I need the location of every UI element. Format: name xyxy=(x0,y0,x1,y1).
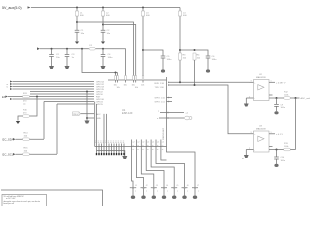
wire drop 2 xyxy=(102,8,104,12)
net label column GPIO names xyxy=(96,82,105,121)
reference U3 xyxy=(256,126,266,131)
wire staircase to jumper col 6 xyxy=(156,152,185,185)
svg-text:x: x xyxy=(187,191,188,193)
pin numbers pad row xyxy=(96,148,125,150)
pin stub GPIO row 1 xyxy=(167,97,173,99)
ground (87,120.5) xyxy=(85,121,90,124)
svg-text:io: io xyxy=(162,145,163,147)
net label LED1 left xyxy=(158,110,189,114)
node junction (77,7.5) xyxy=(76,7,78,9)
ground (144,196.5) xyxy=(141,196,145,199)
wire module riser a xyxy=(103,114,105,144)
pin arrow line 4 xyxy=(10,88,13,90)
note box xyxy=(2,195,47,208)
pin tick rail A xyxy=(168,82,170,84)
net label gnd note xyxy=(242,158,244,160)
wire C9 drop xyxy=(276,98,278,104)
resistor R12 xyxy=(284,92,291,100)
svg-text:io: io xyxy=(142,145,143,147)
svg-text:100k: 100k xyxy=(284,146,288,148)
wire I2C_SDA xyxy=(16,138,45,140)
node junction (103,24) xyxy=(102,24,104,26)
pin arrow UART line 1 xyxy=(10,81,13,83)
wire drop 1 xyxy=(76,8,78,12)
net label out2 xyxy=(271,132,284,136)
wire bottom frame xyxy=(1,190,103,206)
wire LED line 2 xyxy=(159,117,184,119)
op-amp U3 triangle xyxy=(258,136,264,141)
node junction (103,49) xyxy=(102,48,104,50)
wire bundle line 2 xyxy=(13,83,95,85)
wire module rail 2 xyxy=(97,151,125,157)
pin U3 ref xyxy=(269,149,284,151)
svg-text:5V_aux(5.0): 5V_aux(5.0) xyxy=(2,6,22,10)
wire riser SCL to module pin1 xyxy=(96,104,98,144)
ground (276.5,165.4) xyxy=(274,164,278,167)
resistor R7 xyxy=(124,76,127,87)
wire JP3 gnd stub xyxy=(153,194,155,196)
svg-text:x: x xyxy=(135,191,136,193)
wire C9 to gnd xyxy=(276,106,278,111)
capacitor C4a xyxy=(101,30,111,35)
svg-text:10k: 10k xyxy=(124,85,127,87)
wire R13 to feedback riser xyxy=(290,149,295,151)
svg-text:= 0.1 V: = 0.1 V xyxy=(276,134,284,136)
pin U2 ref xyxy=(269,97,284,99)
wire C10 to gnd xyxy=(276,159,278,164)
wire riser SDA to module xyxy=(94,102,96,147)
svg-text:100n: 100n xyxy=(167,59,173,61)
pin stub GPIO row 2 xyxy=(167,101,173,103)
resistor R9 xyxy=(135,76,138,90)
svg-text:2: 2 xyxy=(249,96,250,98)
resistor R8 xyxy=(132,76,135,87)
svg-text:io: io xyxy=(157,145,158,147)
svg-text:io: io xyxy=(137,145,138,147)
wire bundle line 8 xyxy=(13,98,95,100)
node junction (143,7.5) xyxy=(142,7,144,9)
net label EN xyxy=(2,95,6,99)
resistor R3 xyxy=(179,53,187,60)
wire top 5V rail xyxy=(31,7,180,9)
wire LED line 1 xyxy=(160,112,184,114)
wire rail to C6 xyxy=(180,50,208,56)
net label stub 2 xyxy=(155,102,166,104)
reference U1 ESP-12F xyxy=(122,108,133,115)
svg-text:tx: tx xyxy=(7,86,9,89)
wire JP4 gnd stub xyxy=(163,194,165,196)
svg-text:GPIO 1.11: GPIO 1.11 xyxy=(155,102,166,104)
svg-text:100n: 100n xyxy=(212,59,218,61)
wire staircase to jumper col 2 xyxy=(136,152,143,185)
fuse F2 xyxy=(23,93,30,98)
ground (208,70) xyxy=(206,69,210,72)
svg-text:io: io xyxy=(152,145,153,147)
ferrite bead FB3 xyxy=(141,11,150,17)
node junction (67,48.5) xyxy=(66,48,68,50)
svg-text:io: io xyxy=(147,145,148,147)
ground (18,122) xyxy=(16,121,20,124)
wire rail B to opamp2 xyxy=(168,85,254,134)
capacitor C10 xyxy=(274,157,285,162)
net label TXD on rail B xyxy=(155,87,165,89)
wire rail R pullups xyxy=(108,79,167,81)
pin tick (168,112.5) xyxy=(167,112,169,114)
node junction (194.5,85) xyxy=(194,84,196,86)
wire R3 to rail A xyxy=(179,60,181,82)
svg-text:EN: EN xyxy=(2,95,6,99)
pin arrow UART line 2 xyxy=(10,83,13,85)
op-amp U2 triangle xyxy=(258,85,264,90)
solder jumper JP3 xyxy=(151,185,159,195)
svg-text:x: x xyxy=(157,191,158,193)
resistor R14 xyxy=(23,133,30,141)
pin arrow line 3 xyxy=(10,86,13,88)
ground (77,41) xyxy=(75,42,79,45)
node junction (143,50) xyxy=(142,49,144,51)
wire I2C SCL riser xyxy=(57,104,94,154)
net label LED2 left xyxy=(157,118,159,120)
capacitor C3 xyxy=(65,54,75,59)
pin U3 v- to gnd xyxy=(246,150,253,156)
wire R4 to rail B xyxy=(194,60,196,85)
wire rail y24 xyxy=(103,25,136,76)
ground (185,196.5) xyxy=(182,196,186,199)
wire module riser b xyxy=(106,114,108,144)
pin arrow line 8 xyxy=(10,98,13,100)
ground (246.3,155) xyxy=(244,155,249,158)
net label out1 xyxy=(271,81,286,85)
wire C4a to gnd xyxy=(102,32,104,41)
wire staircase to jumper col 1 xyxy=(132,152,134,185)
node junction (51.5,48.5) xyxy=(51,48,53,50)
wire bundle line 3 xyxy=(13,86,95,88)
node junction (194,50) xyxy=(194,49,196,51)
ground (276.5,112.8) xyxy=(274,111,278,114)
wire C10 drop xyxy=(276,150,278,158)
svg-text:GPIO 1.10: GPIO 1.10 xyxy=(155,98,166,100)
pin U3 out xyxy=(269,133,275,135)
node junction (116,72.5) xyxy=(115,72,117,74)
wire gnd drop x87 xyxy=(86,92,88,121)
label column reset xyxy=(23,101,28,115)
pin arrow I2C_SCL xyxy=(13,153,16,155)
node junction (77,22) xyxy=(76,21,78,23)
wire branch x82 down to y72.5 xyxy=(82,49,118,73)
svg-text:a2: a2 xyxy=(132,142,134,144)
wire feedback riser x295.5 xyxy=(295,98,297,150)
svg-text:ADC_mid: ADC_mid xyxy=(301,97,311,100)
note text xyxy=(4,195,40,205)
resistor R15 xyxy=(23,148,30,156)
net label ADC_mid xyxy=(301,97,311,100)
ground (196,196.5) xyxy=(193,196,197,199)
fuse F1 xyxy=(89,45,96,50)
capacitor C2 xyxy=(49,54,60,59)
svg-text:100n: 100n xyxy=(108,57,114,59)
wire C1 to gnd xyxy=(76,32,78,41)
pin arrow 5V input xyxy=(28,6,31,8)
capacitor C5 xyxy=(161,56,172,61)
svg-text:a2: a2 xyxy=(152,142,154,144)
svg-text:I2C_SDA: I2C_SDA xyxy=(2,138,14,142)
svg-text:10k: 10k xyxy=(135,87,138,89)
wire below FB2 xyxy=(102,16,104,30)
svg-text:10k: 10k xyxy=(117,87,120,89)
ground (175,196.5) xyxy=(172,196,176,199)
wire R12 out xyxy=(290,97,299,99)
svg-text:100k: 100k xyxy=(284,94,288,96)
wire C5 to gnd xyxy=(162,58,164,70)
wire bundle line 4 xyxy=(13,88,95,90)
wire JP5 gnd stub xyxy=(173,194,175,196)
net label RX xyxy=(7,84,9,89)
wire reset branch down xyxy=(30,97,38,117)
wire I2C_SCL xyxy=(16,153,58,155)
pin U3 nc stub xyxy=(269,146,273,148)
ground (155,196.5) xyxy=(152,196,156,199)
wire C4 leads xyxy=(102,49,104,66)
wire C6 to gnd xyxy=(207,58,209,70)
pin label + xyxy=(251,81,257,85)
wire PROG line xyxy=(81,113,95,115)
ground (67,66) xyxy=(65,66,70,69)
svg-text:100n: 100n xyxy=(281,160,285,162)
solder jumper JP7 xyxy=(192,185,200,195)
wire route to jumper col 7 xyxy=(161,147,195,185)
svg-text:= 0.597 V: = 0.597 V xyxy=(276,82,286,84)
net label I2C_SCL xyxy=(2,153,14,157)
svg-text:3: 3 xyxy=(251,132,252,134)
ferrite bead FB2 xyxy=(101,11,110,17)
module comb pins 13-24 xyxy=(132,140,164,153)
resistor R6 xyxy=(117,73,120,90)
pin tick stub 2 xyxy=(168,101,170,103)
pin U2 v- to gnd xyxy=(246,98,253,104)
svg-text:nc: nc xyxy=(242,158,244,160)
node junction (180,50) xyxy=(179,49,181,51)
wire below FB1 xyxy=(76,16,78,30)
node junction (276.5,98) xyxy=(276,97,278,99)
capacitor C9 xyxy=(274,104,285,109)
wire staircase to jumper col 4 xyxy=(146,152,164,185)
resistor R17 reset xyxy=(23,115,30,118)
wire rail y22 xyxy=(77,22,134,76)
svg-text:MAX4238: MAX4238 xyxy=(256,128,266,131)
svg-text:10k: 10k xyxy=(141,85,144,87)
svg-text:a2: a2 xyxy=(137,142,139,144)
ground (51.5,66) xyxy=(49,66,54,69)
solder jumper JP4 xyxy=(161,185,169,195)
net label RXD on rail A xyxy=(155,83,165,85)
ground (133,196.5) xyxy=(131,196,135,199)
wire module rail 1 xyxy=(95,146,167,148)
wire branch to C5 xyxy=(143,50,163,56)
ground (165,196.5) xyxy=(162,196,166,199)
pin arrow EN xyxy=(6,96,9,98)
pin arrow I2C_SDA xyxy=(13,138,16,140)
capacitor C6 xyxy=(206,56,217,61)
svg-text:STATUS NET: STATUS NET xyxy=(162,127,165,140)
pin U2 +in xyxy=(250,81,254,83)
svg-text:a2: a2 xyxy=(162,142,164,144)
ferrite bead FB4 xyxy=(178,11,187,17)
wire I2C SDA riser xyxy=(44,102,94,140)
svg-text:PRG: PRG xyxy=(73,114,78,116)
resistor R13 xyxy=(284,143,291,151)
op-amp U3 body xyxy=(254,131,270,152)
wire JP1 gnd stub xyxy=(132,194,134,196)
pin tick (168,118) xyxy=(167,117,169,119)
ground (103,66) xyxy=(101,66,106,69)
ground (246.3,103.5) xyxy=(244,104,249,107)
LED D1 xyxy=(184,116,192,120)
node junction (87,118) xyxy=(86,117,88,119)
wire bundle line 5 xyxy=(30,91,94,93)
net label stub 1 xyxy=(155,98,166,100)
wire JP2 gnd stub xyxy=(143,194,145,196)
node junction (295.5,98) xyxy=(295,97,297,99)
module pad row pins 1-12 xyxy=(95,141,124,155)
svg-text:a2: a2 xyxy=(157,142,159,144)
svg-text:a2: a2 xyxy=(142,142,144,144)
svg-text:ESP-12F: ESP-12F xyxy=(122,111,133,115)
svg-text:1: 1 xyxy=(271,132,272,134)
svg-text:x: x xyxy=(198,191,199,193)
wire JP7 gnd stub xyxy=(194,194,196,196)
pin tick rail B xyxy=(168,84,170,86)
svg-text:2: 2 xyxy=(249,148,250,150)
capacitor C1 xyxy=(75,30,85,35)
svg-text:1: 1 xyxy=(271,81,272,83)
wire C3 leads xyxy=(66,49,68,66)
pin label U3 - xyxy=(249,148,255,152)
svg-text:3: 3 xyxy=(251,81,252,83)
wire rail A to opamp1 xyxy=(168,81,250,83)
reference U2 xyxy=(256,74,266,79)
wire bundle line 1 xyxy=(13,81,95,83)
solder jumper JP2 xyxy=(141,185,149,195)
pin numbers comb row xyxy=(132,149,163,151)
wire status net riser x166.5 xyxy=(166,77,168,147)
node junction (276.5,149.5) xyxy=(276,149,278,151)
wire staircase to jumper col 5 xyxy=(151,152,174,185)
pin tick stub 1 xyxy=(168,97,170,99)
pin label - xyxy=(249,96,255,100)
pin U2 out xyxy=(269,81,275,83)
svg-text:a2: a2 xyxy=(147,142,149,144)
wire JP6 gnd stub xyxy=(184,194,186,196)
svg-text:TXD 1.90: TXD 1.90 xyxy=(155,87,165,89)
node junction (87,91.5) xyxy=(86,91,88,93)
solder jumper JP1 xyxy=(130,185,138,195)
resistor R5 xyxy=(114,73,117,87)
svg-text:x: x xyxy=(146,191,147,193)
solder jumper JP5 xyxy=(171,185,179,195)
wire 3V3 rail y48.5 xyxy=(40,49,126,76)
net label I2C_SDA xyxy=(2,138,14,142)
resistor R4 xyxy=(193,53,201,60)
node junction (37,96.5) xyxy=(36,96,38,98)
ground flag (103,41.5) xyxy=(101,42,105,45)
svg-text:x: x xyxy=(177,191,178,193)
vertical net name text x166.5 xyxy=(162,127,165,140)
wire drop 4 xyxy=(179,8,181,54)
wire drop 3 xyxy=(142,8,144,76)
node junction (180,82.5) xyxy=(179,81,181,83)
node junction (103,7.5) xyxy=(102,7,104,9)
pin label U3 + xyxy=(251,132,257,136)
svg-text:100n: 100n xyxy=(281,107,285,109)
ground (124.5,156) xyxy=(122,156,127,159)
svg-text:io: io xyxy=(132,145,133,147)
svg-text:bead per rail: bead per rail xyxy=(4,202,15,205)
op-amp U2 body xyxy=(254,80,270,101)
solder jumper JP6 xyxy=(182,185,190,195)
svg-text:MAX4238: MAX4238 xyxy=(256,76,266,79)
svg-text:GPIO5: GPIO5 xyxy=(96,104,103,106)
ground (163,70) xyxy=(161,69,165,72)
pin U2 nc stub xyxy=(269,94,273,96)
ferrite bead FB1 xyxy=(75,11,84,17)
resistor R10 xyxy=(141,76,144,87)
wire staircase to jumper col 3 xyxy=(141,152,154,185)
svg-text:or DC 5.0V: or DC 5.0V xyxy=(6,197,16,200)
wire GND stub line xyxy=(87,117,94,119)
svg-text:x: x xyxy=(167,191,168,193)
svg-text:RXD 1.30: RXD 1.30 xyxy=(155,83,165,85)
node junction (82,48.5) xyxy=(81,48,83,50)
net label box PROG xyxy=(73,112,81,116)
pin arrow 3V3 rail xyxy=(37,47,40,50)
wire to gnd blob xyxy=(18,116,23,121)
wire EN line xyxy=(8,96,94,98)
capacitor C4 xyxy=(101,54,113,59)
net label 5V_aux(5.0V) xyxy=(2,6,22,10)
wire C2 leads xyxy=(51,49,53,66)
svg-text:I2C_SCL: I2C_SCL xyxy=(2,153,14,157)
wire bundle line 6 xyxy=(30,93,94,95)
